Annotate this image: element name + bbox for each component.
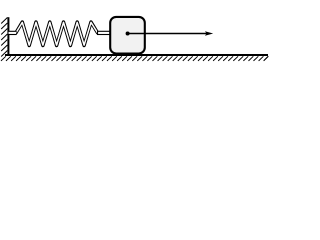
mass block (rounded square) — [110, 17, 145, 54]
ground hatching — [1, 56, 268, 61]
spring (zigzag coil, outlined band) — [9, 22, 111, 46]
spring right lead double-line — [97, 31, 111, 35]
center-of-mass dot on block — [126, 32, 130, 36]
arrowhead (pointing right) — [205, 31, 213, 36]
ground (floor line) — [5, 54, 268, 56]
wall hatching (fixed support, left) — [1, 18, 7, 57]
velocity/force arrow shaft — [128, 33, 207, 35]
wall (fixed support line) — [7, 17, 9, 56]
spring left lead double-line — [9, 31, 17, 35]
